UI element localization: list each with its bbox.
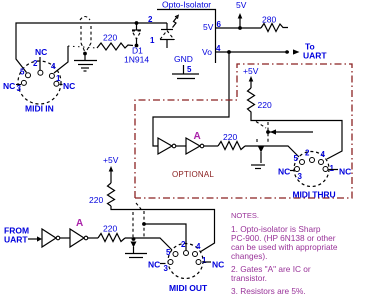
svg-text:+5V: +5V <box>103 155 119 165</box>
resistor R6 220 (OUT series) <box>98 234 125 242</box>
svg-text:220: 220 <box>103 33 117 43</box>
svg-text:UART: UART <box>303 51 327 61</box>
optional dashed shield component at MIDI IN <box>80 17 90 21</box>
resistor R3 220 (THRU pull-up) <box>248 88 255 115</box>
inverter gate A (OUT) <box>70 229 88 247</box>
dash-dot optional box <box>135 64 352 198</box>
wire gate to R4 <box>204 145 218 147</box>
node junction Vo branch <box>227 50 231 54</box>
MIDI IN connector J1 <box>18 61 61 104</box>
svg-text:3: 3 <box>298 172 303 181</box>
svg-text:NC: NC <box>278 167 290 177</box>
node junction THRU pin2 line <box>266 130 270 134</box>
svg-text:NC: NC <box>3 81 15 91</box>
ground arrow (THRU shield) <box>251 147 265 169</box>
wire MIDI IN pin5 to opto cathode (top long wire) <box>16 23 167 73</box>
inverter gate 3 (OUT) <box>42 229 60 247</box>
svg-text:4: 4 <box>196 242 201 251</box>
svg-text:220: 220 <box>223 132 237 142</box>
svg-text:220: 220 <box>89 195 103 205</box>
ground arrow (OUT shield) <box>125 242 147 258</box>
node junction 5V <box>238 26 242 30</box>
wire R5 to OUT pin4 <box>111 206 215 252</box>
node junction at diode top <box>135 21 139 25</box>
resistor R1 220 (MIDI IN series) <box>97 43 133 50</box>
svg-text:MIDI IN: MIDI IN <box>25 104 54 114</box>
svg-text:3: 3 <box>17 84 22 93</box>
power +5V arrow (OUT) <box>103 155 119 183</box>
svg-text:NC: NC <box>212 260 224 270</box>
opto LED (inside opto-isolator) <box>160 15 178 48</box>
diode D1 1N914 <box>132 23 141 46</box>
wire between gates <box>176 145 186 147</box>
svg-text:220: 220 <box>103 224 117 234</box>
svg-text:1N914: 1N914 <box>124 55 149 65</box>
svg-text:5V: 5V <box>236 0 247 10</box>
MIDI OUT connector J2 <box>168 244 203 279</box>
svg-text:2: 2 <box>148 15 153 24</box>
wire R4 to THRU pin5 <box>245 146 299 157</box>
wire Vo down into optional box <box>153 52 229 146</box>
svg-text:3. Resistors are 5%.: 3. Resistors are 5%. <box>231 286 306 296</box>
svg-text:2: 2 <box>181 240 186 249</box>
resistor R4 220 (THRU series) <box>218 142 245 150</box>
power +5V arrow (THRU) <box>243 66 259 88</box>
wire R6 to OUT pin5 <box>125 238 172 250</box>
svg-text:NC: NC <box>148 260 160 270</box>
node junction at diode bottom <box>135 44 139 48</box>
svg-text:4: 4 <box>51 62 56 71</box>
svg-text:3: 3 <box>164 264 169 273</box>
svg-text:4: 4 <box>321 150 326 159</box>
wire THRU pin2 link with left arrow <box>268 131 313 133</box>
svg-text:A: A <box>194 131 201 142</box>
inverter gate 1 (THRU) <box>158 138 176 154</box>
svg-text:5V: 5V <box>203 22 214 32</box>
wire dotted segment pin4 to R1 <box>68 46 97 48</box>
svg-text:5: 5 <box>166 248 171 257</box>
wire MIDI IN pin4 riser <box>54 46 68 73</box>
svg-text:2: 2 <box>305 149 310 158</box>
dashed link (THRU pin2 note) <box>267 122 269 143</box>
wire MIDI IN pin2 NC <box>39 57 41 70</box>
node junction OUT pin2 <box>142 222 146 226</box>
svg-text:5: 5 <box>20 68 25 77</box>
ground (MIDI IN shield) <box>74 52 97 71</box>
wire between gates <box>60 237 70 239</box>
svg-text:Opto-Isolator: Opto-Isolator <box>162 0 211 10</box>
svg-text:Vo: Vo <box>202 47 212 57</box>
svg-text:A: A <box>76 218 83 229</box>
arrow from UART <box>28 238 37 240</box>
svg-text:280: 280 <box>262 15 276 25</box>
svg-text:NC: NC <box>63 81 75 91</box>
svg-text:MIDI OUT: MIDI OUT <box>169 283 208 293</box>
svg-text:1: 1 <box>202 256 207 265</box>
opto-isolator U1 box <box>157 10 216 64</box>
wire R3 to THRU pin4 <box>251 115 342 159</box>
node junction OUT shield <box>132 237 136 241</box>
svg-text:+5V: +5V <box>243 66 259 76</box>
resistor R2 280 (pull-up) <box>261 24 288 32</box>
svg-text:NC: NC <box>35 47 47 57</box>
svg-text:5: 5 <box>187 65 192 74</box>
wire OUT pin2 <box>144 224 186 250</box>
svg-text:changes).: changes). <box>231 251 267 261</box>
arrow to UART <box>293 49 300 54</box>
notes text <box>231 211 338 296</box>
svg-text:5: 5 <box>294 154 299 163</box>
svg-text:OPTIONAL: OPTIONAL <box>172 170 214 179</box>
svg-text:1: 1 <box>330 164 335 173</box>
wire pin6 to 5V <box>216 27 262 29</box>
svg-text:2: 2 <box>33 59 38 68</box>
svg-text:NC: NC <box>339 167 351 177</box>
svg-text:1: 1 <box>56 74 61 83</box>
svg-text:MIDI THRU: MIDI THRU <box>293 190 336 200</box>
svg-text:UART: UART <box>4 235 28 245</box>
wire gate to R6 <box>88 237 98 239</box>
resistor R5 220 (OUT pull-up) <box>108 183 115 206</box>
svg-text:GND: GND <box>174 54 193 64</box>
dashed link (OUT pin2 note) <box>132 212 134 237</box>
wire Vo to UART <box>216 51 290 53</box>
svg-text:NOTES.: NOTES. <box>231 211 259 220</box>
svg-text:1: 1 <box>150 36 155 45</box>
power +5V arrow (top) <box>236 0 247 27</box>
inverter gate A (THRU) <box>186 138 204 154</box>
svg-text:220: 220 <box>258 100 272 110</box>
GND pin of opto <box>172 54 199 79</box>
LED light arrows <box>173 17 178 28</box>
MIDI THRU connector J3 <box>294 152 329 187</box>
svg-text:transistor.: transistor. <box>231 273 267 283</box>
